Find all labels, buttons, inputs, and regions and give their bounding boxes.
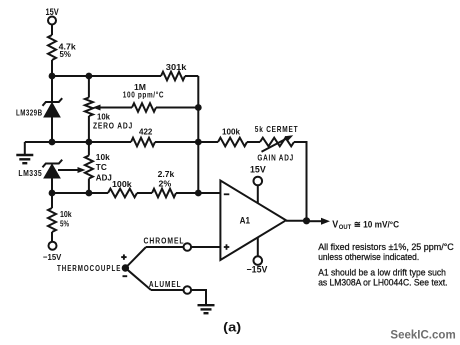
op-amp U1 A1 (220, 181, 286, 261)
wire 100k to 5k pot (247, 141, 260, 143)
svg-text:15V: 15V (250, 165, 266, 175)
wire 301k to right bus corner (185, 75, 198, 77)
resistor R11 10k 5% (to -15V) (51, 193, 53, 208)
svg-text:301k: 301k (166, 62, 187, 72)
wire chromel diagonal (125, 247, 146, 268)
svg-text:100 ppm/°C: 100 ppm/°C (123, 90, 164, 100)
wire 422 to 100k crossing right bus (155, 141, 218, 143)
junction LM329B anode / ground / LM335 cathode (49, 139, 56, 146)
resistor R9 100k (inverting input) (108, 189, 137, 198)
resistor R6 422 on mid rail (131, 138, 155, 147)
wire alumel to ground (191, 290, 206, 304)
svg-text:ADJ: ADJ (96, 172, 112, 182)
terminal chromel (184, 243, 192, 251)
svg-text:422: 422 (139, 126, 153, 136)
resistor R4 1M 100ppm/C with wiper arrow to zero-adj pot (96, 107, 132, 109)
svg-text:THERMOCOUPLE: THERMOCOUPLE (57, 263, 121, 273)
svg-text:unless otherwise indicated.: unless otherwise indicated. (318, 252, 419, 262)
wire to zero/tc pot bus on mid rail (52, 141, 131, 143)
wire ground to left bus (25, 141, 52, 143)
resistor R10 2.7k 2% (152, 189, 176, 198)
svg-text:CHROMEL: CHROMEL (144, 236, 185, 246)
svg-text:−15V: −15V (43, 252, 62, 262)
op-amp minus input sign (224, 193, 230, 195)
svg-text:TC: TC (96, 162, 107, 172)
junction at zero-adj pot top (86, 73, 93, 80)
terminal alumel (184, 286, 192, 294)
junction mid rail at pot bus (86, 139, 93, 146)
wire top rail to zero-adj pot and 301k (52, 75, 161, 77)
junction inverting rail at right bus (195, 190, 202, 197)
wire chromel horizontal (146, 246, 183, 248)
svg-text:All fixed resistors ±1%, 25 pp: All fixed resistors ±1%, 25 ppm/°C (318, 242, 454, 252)
wire feedback from 5k pot down to output node (294, 142, 307, 221)
wire alumel horizontal (151, 289, 183, 291)
svg-text:10k: 10k (96, 152, 110, 162)
svg-text:A1 should be a low drift type: A1 should be a low drift type such (318, 267, 446, 277)
svg-text:ZERO ADJ: ZERO ADJ (93, 121, 133, 131)
node V+ ref junction (52,76) (49, 73, 56, 80)
zener diode D1 LM329B (51, 76, 53, 102)
svg-text:5%: 5% (60, 218, 69, 228)
svg-text:10k: 10k (97, 111, 110, 121)
svg-text:OUT: OUT (339, 224, 352, 231)
LM335 adj arrow to TC pot wiper (58, 169, 80, 171)
potentiometer R3 10k ZERO ADJ (88, 76, 90, 98)
junction mid rail at right bus (195, 139, 202, 146)
resistor R2 301k (161, 72, 185, 81)
svg-text:100k: 100k (222, 126, 240, 136)
wire alumel diagonal (125, 268, 151, 290)
svg-text:2%: 2% (159, 178, 172, 188)
wire chromel to op-amp + (191, 246, 220, 248)
svg-text:SeekIC.com: SeekIC.com (390, 330, 455, 342)
svg-text:ALUMEL: ALUMEL (149, 279, 182, 289)
ground symbol (left, ref ground) (24, 142, 26, 154)
wire inverting rail segments (52, 192, 108, 194)
svg-text:GAIN ADJ: GAIN ADJ (257, 153, 294, 163)
svg-text:LM329B: LM329B (16, 108, 43, 118)
op-amp supply -15V (257, 238, 259, 257)
svg-text:100k: 100k (112, 179, 132, 189)
zener/temp-sensor D2 LM335 (43, 160, 63, 168)
svg-text:A1: A1 (240, 215, 250, 225)
junction inverting rail at pot bus (86, 190, 93, 197)
wire right bus vertical (197, 76, 199, 193)
resistor R1 4.7k 5% (48, 35, 56, 60)
power terminal -15V (bottom left) (49, 242, 57, 250)
svg-text:≅ 10 mV/°C: ≅ 10 mV/°C (354, 219, 399, 230)
svg-text:LM335: LM335 (18, 169, 42, 179)
ground symbol (alumel) (198, 304, 215, 306)
svg-text:5%: 5% (60, 49, 72, 59)
junction inverting rail at left bus (49, 190, 56, 197)
svg-text:−15V: −15V (247, 265, 268, 275)
potentiometer R5 10k TC ADJ (85, 156, 93, 179)
potentiometer R8 5k CERMET GAIN ADJ (260, 138, 294, 147)
wire op-amp output (286, 220, 307, 222)
thermocouple junction node (122, 264, 129, 271)
svg-text:5k CERMET: 5k CERMET (255, 124, 299, 134)
svg-text:V: V (332, 218, 338, 230)
node output junction (303, 217, 310, 224)
resistor R7 100k (gain network) (218, 138, 247, 147)
junction 1M to right bus (195, 104, 202, 111)
output arrow (307, 220, 323, 222)
svg-text:(a): (a) (223, 320, 241, 335)
op-amp plus input sign (224, 246, 230, 248)
svg-text:as LM308A or LH0044C. See text: as LM308A or LH0044C. See text. (318, 278, 447, 288)
